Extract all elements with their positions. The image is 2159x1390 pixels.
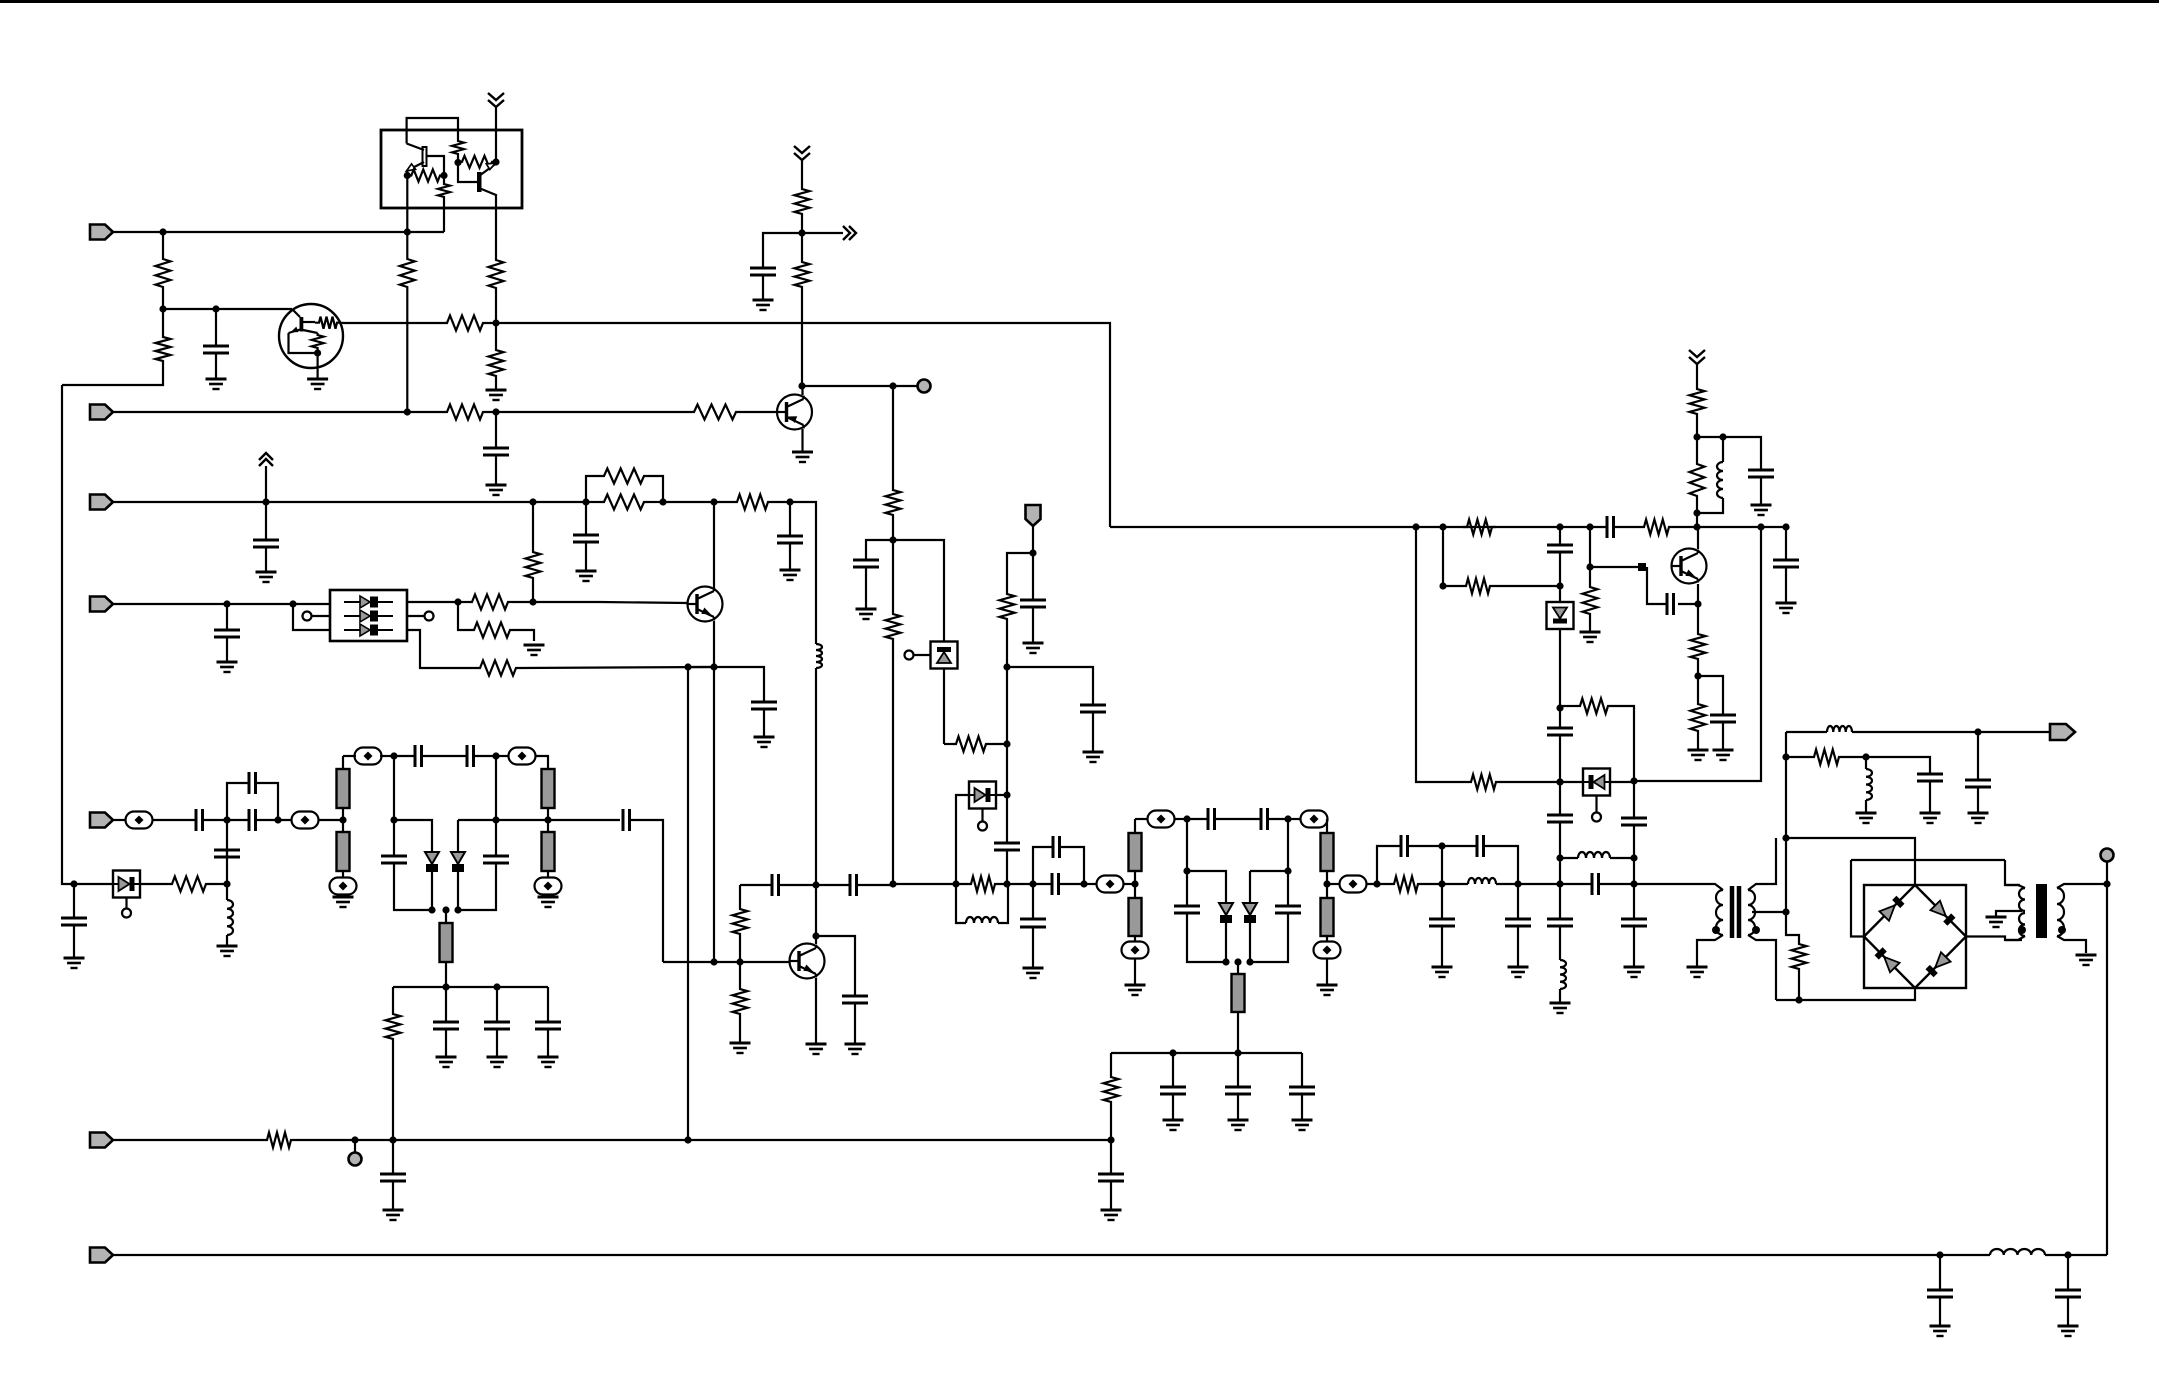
- resistor R6: [400, 255, 415, 291]
- wire C55 gnd: [392, 1181, 394, 1210]
- junction 2107/884: [2103, 880, 2110, 887]
- junction base node: [159, 305, 166, 312]
- wire L3 left: [956, 884, 966, 923]
- wire 1634 b: [1633, 825, 1635, 884]
- wire col2 gnd: [547, 894, 549, 897]
- junction 1560/858: [1556, 854, 1563, 861]
- wire 1560 a: [1559, 527, 1561, 545]
- junction 1560/782b: [1556, 778, 1563, 785]
- junction 1033/884: [1029, 880, 1036, 887]
- ground C28: [1023, 643, 1044, 653]
- resistor R10: [795, 185, 810, 218]
- ground R34: [1580, 632, 1601, 642]
- capacitor C15: [415, 745, 422, 767]
- wire R40 down: [1798, 973, 1800, 1000]
- wire R35 down: [1697, 663, 1699, 700]
- capacitor C6: [573, 535, 599, 542]
- capacitor C39: [1477, 835, 1484, 857]
- pin D2: [122, 909, 131, 918]
- capacitor C38: [1401, 835, 1408, 857]
- junction 1634/858: [1630, 854, 1637, 861]
- R-boxC bottom lead: [457, 156, 459, 163]
- resistor R34: [1583, 583, 1598, 618]
- inductor L8: [1827, 726, 1852, 732]
- resistor R36: [1691, 700, 1706, 735]
- varactor D6: [1219, 903, 1233, 923]
- resistor R15: [600, 495, 648, 510]
- capacitor C59: [1020, 919, 1046, 927]
- wire L7 gnd: [1559, 989, 1561, 1003]
- input connector P2: [90, 405, 113, 420]
- junction 227/820: [223, 816, 230, 823]
- Q2 base diag: [292, 309, 300, 317]
- wire C34 down: [1250, 913, 1288, 962]
- wire C37 gnd: [1301, 1094, 1303, 1120]
- power chevron V3: [259, 453, 273, 466]
- wire top caps a: [394, 755, 415, 757]
- ground C46: [1713, 750, 1734, 760]
- wire L2 gnd: [226, 935, 228, 946]
- wire bridge top feed: [1786, 838, 1915, 885]
- wire 1560 col: [1559, 735, 1561, 782]
- wire C46 gnd: [1722, 722, 1724, 750]
- ground TR1: [1687, 967, 1708, 977]
- transistor Q3: [777, 395, 812, 430]
- junction 496/162: [492, 158, 499, 165]
- wire C40 gnd: [1441, 926, 1443, 967]
- bridge diode DB4: [1926, 952, 1951, 977]
- capacitor C25: [850, 874, 857, 896]
- wire m2col1 up: [1134, 819, 1136, 833]
- optocoupler box U2: [330, 590, 407, 641]
- wire R36 gnd: [1697, 735, 1699, 750]
- Q5 collector: [815, 936, 817, 944]
- junction 1799/1000: [1795, 996, 1802, 1003]
- junction 1443/527: [1439, 523, 1446, 530]
- wire C12 leads: [227, 819, 249, 821]
- Q1a base wire: [427, 156, 445, 182]
- ground L7: [1550, 1003, 1571, 1013]
- ferrite bead FB7: [1097, 876, 1124, 893]
- wire C19 gnd: [445, 1029, 447, 1057]
- junction 1590/567: [1586, 563, 1593, 570]
- capacitor C34: [1275, 906, 1301, 913]
- junction 688/1140: [684, 1136, 691, 1143]
- junction U2 out: [454, 598, 461, 605]
- wire 732 line: [1786, 731, 1827, 733]
- wire FB1 to C10: [152, 819, 196, 821]
- Q3 collector up: [801, 386, 803, 395]
- wire bridge ac2 left: [1851, 860, 1864, 937]
- wire bridge bottom: [1776, 988, 1915, 1000]
- wire 1007 up: [1006, 667, 1008, 744]
- wire 732 line b: [1852, 731, 2050, 733]
- ground C4: [856, 609, 877, 619]
- Q2 Rh lead: [303, 321, 315, 323]
- wire R8 to Q3: [740, 411, 777, 413]
- wire R10-R11: [801, 218, 803, 258]
- junction 293/604: [289, 600, 296, 607]
- diode D8: [1583, 769, 1610, 796]
- wire m2 top d: [1215, 818, 1262, 820]
- junction 1560/708: [1556, 704, 1563, 711]
- wire stub8 down: [1237, 1012, 1239, 1053]
- ground C27: [1083, 752, 1104, 762]
- wire Rpar top loop: [586, 476, 600, 502]
- wire 885 a: [740, 884, 772, 886]
- wire L9 leads: [1865, 757, 1867, 769]
- inductor L10: [1990, 1249, 2045, 1255]
- wire bottom net: [393, 986, 548, 988]
- resistor R16: [733, 495, 772, 510]
- Q1b base wire: [458, 163, 477, 183]
- resistor R30: [1640, 520, 1673, 535]
- ground C6: [576, 571, 597, 581]
- wire C29 leads: [1033, 883, 1052, 885]
- Q1b collector diag: [479, 188, 496, 215]
- ground C59: [1023, 968, 1044, 978]
- power chevron V2: [794, 146, 810, 160]
- pin U2 left: [303, 612, 312, 621]
- ground C56: [1101, 1210, 1122, 1220]
- wire f2 b: [1496, 883, 1592, 885]
- capacitor C56: [1098, 1174, 1124, 1181]
- wire R22 down: [392, 1043, 394, 1140]
- junction 393/1140: [389, 1136, 396, 1143]
- ferrite bead FB8: [1122, 942, 1149, 959]
- transistor Q4: [688, 587, 723, 622]
- wire loop right: [256, 783, 279, 820]
- resistor R11: [795, 258, 810, 291]
- wire base to Q2: [163, 308, 292, 310]
- inductor L7: [1560, 960, 1566, 989]
- resistor R1: [156, 255, 171, 291]
- wire m2 top b: [1174, 818, 1187, 820]
- wire stub3 down: [445, 962, 447, 987]
- ground m2col2: [1317, 985, 1338, 995]
- junction 1238/1053: [1234, 1049, 1241, 1056]
- wire R24 gnd: [739, 1018, 741, 1043]
- wire R12 down: [892, 643, 894, 884]
- resistor R31: [1467, 775, 1500, 790]
- junction 1560/884: [1556, 880, 1563, 887]
- wire R13 to 1007: [990, 743, 1007, 745]
- wire P8 corner: [2106, 1254, 2108, 1256]
- wire R27 up: [1110, 1053, 1112, 1073]
- wire Q4e vertical: [713, 667, 715, 962]
- terminal T1: [918, 380, 931, 393]
- capacitor C8: [214, 630, 240, 637]
- wire loop right vert: [495, 756, 497, 856]
- transformer TR2 left winding b: [2019, 913, 2025, 936]
- TR2 dots: [2018, 926, 2066, 934]
- ground C13: [64, 958, 85, 968]
- wire L6 left lead: [1560, 857, 1578, 859]
- wire col2 low: [547, 871, 549, 878]
- junction 1978/732: [1974, 728, 1981, 735]
- wire m2col1 mid2: [1134, 884, 1136, 898]
- wire C47 gnd: [1760, 477, 1762, 505]
- wire C50 gnd: [1633, 926, 1635, 967]
- wire C2 gnd stem: [495, 455, 497, 485]
- wire loop top seg1: [394, 820, 432, 852]
- junction 1377/884: [1373, 880, 1380, 887]
- ground C40: [1432, 967, 1453, 977]
- junction 1111/1140: [1107, 1136, 1114, 1143]
- wire Q5 coll branch: [816, 936, 855, 996]
- wire D5 right: [996, 794, 1007, 796]
- wire C57 gnd: [1939, 1297, 1941, 1326]
- transformer TR2 right winding: [2057, 888, 2064, 936]
- ground TR2 sec: [2076, 955, 2097, 965]
- junction 1560/782: [1556, 778, 1563, 785]
- ground R19: [524, 645, 545, 655]
- pin D8: [1592, 813, 1601, 822]
- varactor D7: [1243, 903, 1257, 923]
- ground R36: [1688, 750, 1709, 760]
- junction P4/C8: [223, 600, 230, 607]
- wire R18 up: [532, 502, 534, 548]
- wire f2 top left: [1377, 846, 1401, 884]
- wire R5 to gnd: [495, 380, 497, 390]
- wire em cap branch: [1698, 676, 1723, 715]
- wire f2 to T: [1599, 883, 1635, 885]
- transistor Q6: [1672, 549, 1707, 584]
- wire C59 gnd stem: [1032, 927, 1034, 968]
- resistor R32: [1462, 579, 1494, 594]
- transformer TR1 left winding: [1716, 890, 1723, 935]
- wire R12 up: [892, 540, 894, 610]
- wire R4 to node: [495, 292, 497, 323]
- wire tag stem: [1032, 526, 1034, 553]
- junction 1634/884: [1630, 880, 1637, 887]
- ground L9: [1856, 813, 1877, 823]
- wire 1007 vert: [1006, 744, 1008, 843]
- wire R32 leads: [1443, 585, 1462, 587]
- ground C23: [845, 1044, 866, 1054]
- Q5 emitter: [815, 978, 817, 1044]
- junction stub3 top: [442, 906, 449, 913]
- Q1a emitter diag: [407, 162, 424, 171]
- junction 1288/819: [1284, 815, 1291, 822]
- wire m2col1 gnd stem: [1134, 958, 1136, 985]
- capacitor C13: [61, 918, 87, 925]
- junction 1866/757: [1862, 753, 1869, 760]
- varactor D4: [451, 852, 465, 872]
- wire R1 top: [162, 232, 164, 255]
- wire D4 down: [457, 872, 459, 910]
- wire R6 down: [406, 291, 408, 412]
- capacitor C4: [853, 560, 879, 567]
- junction Rpar right: [659, 498, 666, 505]
- wire L5 top: [1697, 436, 1723, 438]
- wire C23 gnd: [854, 1003, 856, 1044]
- wire R19 gnd lead: [514, 630, 534, 641]
- wire 708 corner: [1612, 706, 1634, 781]
- junction 1007/795: [1003, 791, 1010, 798]
- wire C18 down: [458, 863, 496, 910]
- resistor R14: [600, 469, 648, 484]
- wire 1416 drop: [1416, 527, 1467, 782]
- ground L2: [217, 946, 238, 956]
- ground C54: [1920, 813, 1941, 823]
- wire m2 loop topseg1: [1187, 871, 1226, 903]
- wire L2 leads: [226, 884, 228, 900]
- wire L6 right: [1610, 857, 1634, 859]
- junction 1697/527: [1693, 523, 1700, 530]
- wire C40 stem: [1441, 884, 1443, 919]
- junction 740/962: [736, 958, 743, 965]
- resistor R9: [886, 486, 901, 519]
- Q4 emitter down: [713, 621, 715, 667]
- wire main 496-548: [496, 819, 548, 821]
- capacitor C7: [777, 536, 803, 543]
- junction P2/C2: [492, 408, 499, 415]
- opto diode row 3: [344, 624, 393, 636]
- wire m2col1 mid: [1134, 871, 1136, 884]
- capacitor C9: [751, 702, 777, 709]
- TR2 right top lead: [2057, 884, 2107, 888]
- junction mixer2 col2: [1323, 880, 1330, 887]
- capacitor C45: [1667, 593, 1674, 615]
- wire R13 lead: [944, 743, 952, 745]
- capacitor C46: [1710, 715, 1736, 722]
- junction 278/820: [274, 816, 281, 823]
- TR2 left top lead: [2005, 885, 2025, 888]
- diode D9: [1547, 602, 1574, 629]
- junction 458/162: [454, 159, 461, 166]
- ground TR2 tap: [1986, 917, 2007, 927]
- stripline ST1: [337, 769, 350, 808]
- junction 1187/819: [1183, 815, 1190, 822]
- capacitor C42: [1592, 873, 1599, 895]
- ground C48: [1776, 603, 1797, 613]
- capacitor C22: [623, 809, 630, 831]
- resistor R-boxD: [458, 156, 496, 168]
- wire P2 net b: [487, 411, 690, 413]
- Q4 base lead: [533, 602, 687, 603]
- junction 1442/846: [1438, 842, 1445, 849]
- resistor R4: [489, 256, 504, 292]
- wire C2 stem: [495, 412, 497, 448]
- wire 1560 c: [1559, 629, 1561, 708]
- junction 533/502: [529, 498, 536, 505]
- Q2 Re bottom lead: [317, 350, 319, 353]
- ground C8: [217, 662, 238, 672]
- wire m2 loop topseg2: [1250, 870, 1288, 872]
- wire C35 stem: [1172, 1053, 1174, 1087]
- junction 956/884: [952, 880, 959, 887]
- wire C12 leads b: [256, 819, 293, 821]
- capacitor C40: [1429, 919, 1455, 926]
- junction 802/386: [798, 382, 805, 389]
- wire P3 net: [113, 501, 586, 503]
- wire C7 stem: [789, 502, 791, 536]
- inductor L3: [966, 917, 998, 923]
- wire m2col1 low: [1134, 936, 1136, 942]
- ground Q5: [806, 1044, 827, 1054]
- stripline ST6: [1129, 833, 1142, 871]
- wire R9 to node: [892, 519, 894, 540]
- terminal T2: [2101, 849, 2114, 862]
- wire cap C4 branch: [866, 540, 893, 560]
- junction P3/chev: [262, 498, 269, 505]
- wire 757 line b: [1843, 757, 1930, 774]
- wire R9 lead: [892, 386, 894, 486]
- wire R18 mid: [532, 582, 534, 602]
- resistor R18: [526, 548, 541, 582]
- junction 1007/667: [1003, 663, 1010, 670]
- transformer TR1 right winding aux: [1748, 890, 1755, 935]
- wire P8 net: [113, 1254, 1990, 1256]
- wire V3 stem: [265, 466, 267, 502]
- capacitor C30: [1053, 836, 1060, 858]
- stripline ST7: [1129, 898, 1142, 936]
- wire C59 stem: [1032, 884, 1034, 919]
- wire 884 e: [999, 883, 1033, 885]
- wire R15 leads: [586, 501, 600, 503]
- ground C19: [436, 1057, 457, 1067]
- capacitor C10: [196, 809, 203, 831]
- R-boxB to net: [443, 199, 445, 232]
- net arrow A1: [843, 226, 856, 240]
- wire m2col2 low: [1326, 936, 1328, 942]
- pin D5: [978, 822, 987, 831]
- resistor R21: [168, 877, 210, 892]
- resistor R25: [967, 877, 999, 892]
- ferrite bead FB6: [535, 878, 562, 895]
- wire V2 branch: [763, 233, 802, 268]
- resistor R23: [733, 905, 748, 938]
- capacitor C28: [1020, 600, 1046, 607]
- wire stub8 stem: [1237, 962, 1239, 974]
- Q1a collector loop: [407, 118, 458, 144]
- stripline ST9: [1321, 833, 1334, 871]
- ground C9: [754, 737, 775, 747]
- wire T3 stem: [354, 1140, 356, 1152]
- wire D5 col: [956, 795, 969, 884]
- ground C55: [383, 1210, 404, 1220]
- wire C45 path: [1678, 603, 1698, 605]
- wire R19 branch: [458, 602, 470, 630]
- wire D3 down: [431, 872, 433, 910]
- Q2 internal resistor Re: [312, 333, 324, 350]
- junction 1590/527: [1586, 523, 1593, 530]
- wire L3 right: [998, 884, 1008, 923]
- capacitor C26: [994, 843, 1020, 850]
- wire m2 top corner: [1326, 819, 1328, 833]
- wire P4 loop: [293, 604, 330, 630]
- junction 407/175: [404, 172, 411, 179]
- Q2 Re top tie: [303, 330, 318, 333]
- wire P5 to FB1: [113, 819, 126, 821]
- wire R21 to node: [210, 883, 227, 885]
- Q1b emitter diag: [479, 164, 496, 177]
- Q2 emitter to gnd: [317, 353, 319, 379]
- wire R27 down: [1110, 1106, 1112, 1140]
- Q1a emitter arrow: [407, 164, 416, 171]
- wire m2 top a: [1135, 818, 1148, 820]
- junction Q5 coll: [812, 932, 819, 939]
- wire P8 net b: [2045, 1254, 2107, 1256]
- net tag TP1: [1026, 505, 1041, 526]
- wire R17 to col: [512, 601, 533, 603]
- junction 1697/513: [1693, 509, 1700, 516]
- TR2 left bottom lead: [2005, 936, 2025, 940]
- junction mixer2 col1: [1131, 880, 1138, 887]
- junction 496/820: [492, 816, 499, 823]
- capacitor C44: [1547, 545, 1573, 552]
